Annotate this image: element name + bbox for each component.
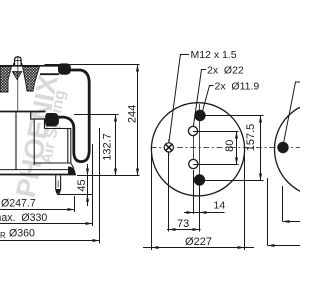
rubber crosshatch pocket wedge bbox=[12, 72, 21, 80]
top bead plate bbox=[0, 65, 60, 67]
label 2x d22 bbox=[193, 64, 244, 126]
ext line d330 bbox=[92, 144, 94, 226]
filled hole second circle bbox=[277, 142, 288, 153]
svg-text:Ø247.7: Ø247.7 bbox=[1, 197, 36, 209]
dim d227 bbox=[143, 153, 254, 251]
ext line d247.7 bbox=[74, 196, 76, 212]
filled hole top (M12 stud) bbox=[194, 110, 205, 121]
dim line 45 bbox=[87, 164, 89, 206]
ext line d360 bbox=[99, 128, 101, 244]
svg-text:80: 80 bbox=[224, 140, 236, 152]
dim 80 bbox=[193, 132, 239, 165]
svg-text:244: 244 bbox=[126, 105, 138, 123]
svg-text:Ø360: Ø360 bbox=[9, 227, 35, 239]
piston bottom corner bead bbox=[68, 167, 76, 175]
ext line piston top (132.7) bbox=[74, 114, 119, 116]
bellows lower bead bbox=[46, 114, 59, 127]
filled hole bottom (M12 stud) bbox=[194, 174, 205, 185]
open hole upper (d22) bbox=[188, 126, 197, 135]
open hole lower (d22) bbox=[189, 159, 198, 168]
svg-text:14: 14 bbox=[214, 199, 226, 211]
horizontal dashed centerline bbox=[151, 147, 301, 149]
dim line d247.7 bbox=[0, 209, 75, 211]
vertical centerline through bolt holes bbox=[199, 104, 201, 196]
piston top plate bbox=[0, 111, 46, 113]
dim line 244 bbox=[137, 65, 139, 176]
ext line top (244) bbox=[45, 64, 140, 66]
plate rolled edge bead bbox=[59, 64, 71, 74]
svg-text:M12 x 1.5: M12 x 1.5 bbox=[191, 49, 237, 61]
svg-text:157.5: 157.5 bbox=[245, 124, 257, 152]
dim 157.5 bbox=[200, 116, 264, 181]
svg-text:2x Ø22: 2x Ø22 bbox=[207, 64, 244, 76]
svg-text:R: R bbox=[0, 231, 6, 240]
label M12 x 1.5 bbox=[169, 49, 237, 143]
centerline bbox=[17, 56, 19, 112]
crossed circle (air fitting M12x1.5) bbox=[164, 139, 173, 156]
line joining open holes bbox=[193, 124, 195, 169]
ext line piston bottom bbox=[77, 175, 140, 177]
piston bottom plate bbox=[0, 169, 68, 171]
piston body bbox=[16, 112, 74, 170]
svg-text:2x Ø11.9: 2x Ø11.9 bbox=[215, 81, 260, 93]
svg-text:max. Ø330: max. Ø330 bbox=[0, 212, 47, 224]
svg-text:132.7: 132.7 bbox=[102, 133, 114, 161]
arrows side view bbox=[68, 65, 140, 243]
dim line 132.7 bbox=[115, 115, 117, 176]
dim 73 bbox=[167, 153, 201, 232]
dims second circle bbox=[268, 178, 301, 246]
main circle bbox=[151, 103, 244, 196]
second circle arc bbox=[275, 102, 320, 197]
svg-text:73: 73 bbox=[177, 218, 189, 230]
top stud bbox=[14, 57, 22, 66]
svg-text:45: 45 bbox=[76, 179, 88, 191]
dim 14 bbox=[184, 170, 225, 232]
leader to second circle hole bbox=[284, 82, 300, 142]
ext line stud end (45) bbox=[57, 194, 92, 196]
bellows outer contour bbox=[55, 70, 89, 162]
dim line d360 bbox=[0, 240, 100, 242]
bottom stud bbox=[56, 176, 61, 194]
rubber crosshatch right bbox=[23, 67, 40, 92]
label 2x d11.9 bbox=[203, 81, 260, 111]
svg-text:Ø227: Ø227 bbox=[185, 236, 212, 248]
dim line d330 bbox=[0, 223, 93, 225]
rubber crosshatch left bbox=[0, 67, 12, 93]
